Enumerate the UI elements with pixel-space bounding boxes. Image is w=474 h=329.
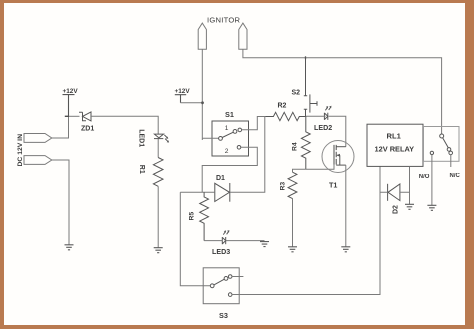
ground relay coil	[405, 204, 414, 209]
wire E2 to relay common	[243, 49, 442, 134]
wire D1 anode row	[180, 191, 215, 193]
svg-text:DC 12V IN: DC 12V IN	[17, 134, 24, 167]
ground LED1/R1	[154, 248, 163, 253]
LED3	[222, 231, 228, 244]
junction dot	[201, 101, 204, 104]
power +12V second	[175, 95, 186, 103]
switch S1 box	[212, 121, 249, 156]
wire S1 terminal2 to D1 anode node	[202, 147, 257, 192]
junction tick ZD1 node	[65, 115, 69, 117]
wire D1 cathode up to R2 input	[230, 117, 265, 193]
wire S3 top stub	[232, 276, 243, 278]
wire +12V2 to electrode column	[181, 102, 203, 104]
ground N/O	[427, 205, 436, 210]
electrode E1 left	[198, 23, 206, 49]
svg-text:N/C: N/C	[450, 173, 461, 179]
zener ZD1	[79, 112, 91, 121]
relay RL1 box	[367, 124, 423, 166]
svg-text:R1: R1	[138, 165, 145, 174]
ground LED3	[260, 242, 269, 247]
resistor R5	[200, 192, 209, 240]
svg-text:R4: R4	[292, 142, 299, 151]
svg-text:R2: R2	[278, 103, 287, 110]
wire D2 leads	[380, 191, 410, 193]
resistor R2	[265, 112, 305, 120]
wire LED3 to ground	[226, 240, 265, 242]
resistor R1	[153, 158, 163, 187]
LED1	[154, 134, 168, 141]
wire left column down to S3	[180, 192, 210, 285]
relay N/O contact	[430, 151, 433, 154]
svg-text:LED3: LED3	[212, 248, 230, 256]
wire J2 to ground	[52, 160, 69, 245]
wire S1 terminal1 to R2	[242, 117, 266, 130]
svg-text:IGNITOR: IGNITOR	[207, 16, 241, 25]
svg-text:S1: S1	[225, 110, 234, 119]
svg-text:+12V: +12V	[175, 88, 191, 95]
svg-text:S3: S3	[219, 311, 228, 320]
svg-text:LED2: LED2	[314, 124, 332, 132]
resistor R4	[301, 116, 310, 169]
electrode E2 right	[239, 23, 247, 49]
svg-text:R5: R5	[189, 212, 196, 221]
wire ZD1 to LED1	[91, 116, 158, 134]
junction tick S2 top	[305, 56, 307, 59]
svg-text:D1: D1	[216, 175, 225, 182]
ground input	[65, 245, 74, 250]
diode D2	[388, 184, 400, 201]
diode D1	[215, 183, 230, 202]
wire R3 to ground	[292, 198, 294, 247]
power +12V first	[63, 95, 75, 117]
wire R2/S2 node to LED2	[306, 115, 326, 117]
resistor R3	[288, 172, 297, 198]
wire gate from R4 node	[306, 165, 334, 170]
transistor T1	[322, 141, 354, 173]
svg-text:1: 1	[225, 125, 229, 132]
wire S3 bottom to relay coil	[232, 166, 380, 294]
wire N/O to ground	[431, 155, 433, 206]
svg-text:2: 2	[225, 148, 229, 155]
wire R4 bottom to R3 top	[293, 169, 306, 172]
connector J2 bottom pin	[24, 156, 52, 165]
wire J1 to +12V node	[52, 116, 69, 138]
wire N/C stub	[450, 155, 452, 167]
switch S2 push button	[304, 58, 317, 117]
svg-text:T1: T1	[329, 181, 337, 190]
switch S1 contacts	[219, 128, 242, 149]
wire LED2 to T1 drain	[329, 116, 346, 146]
svg-text:R3: R3	[280, 182, 287, 191]
ground T1	[341, 247, 350, 252]
wire relay right pin to ground	[409, 166, 411, 204]
wire E1 down to S1 common column	[201, 49, 203, 140]
wire R5 to LED3	[204, 240, 222, 242]
svg-text:ZD1: ZD1	[81, 126, 94, 133]
ground R3	[288, 247, 297, 252]
svg-text:S2: S2	[292, 90, 301, 97]
wire LED1 to R1	[157, 139, 159, 158]
svg-text:12V RELAY: 12V RELAY	[375, 144, 415, 153]
relay contact box	[424, 127, 460, 162]
connector J1 top pin	[24, 134, 52, 143]
LED2	[324, 107, 330, 120]
wire S1 common from column	[202, 137, 218, 139]
wire +12V to ZD1	[69, 115, 80, 117]
switch S3 box	[203, 268, 239, 304]
svg-text:N/O: N/O	[419, 174, 430, 180]
svg-text:RL1: RL1	[387, 132, 402, 141]
relay contacts	[440, 134, 453, 155]
wire T1 source to ground	[345, 165, 347, 247]
switch S3 contacts	[210, 275, 232, 297]
svg-text:LED1: LED1	[138, 129, 145, 147]
svg-text:+12V: +12V	[63, 88, 79, 95]
wire R1 to ground	[157, 186, 159, 247]
svg-text:D2: D2	[393, 205, 400, 214]
